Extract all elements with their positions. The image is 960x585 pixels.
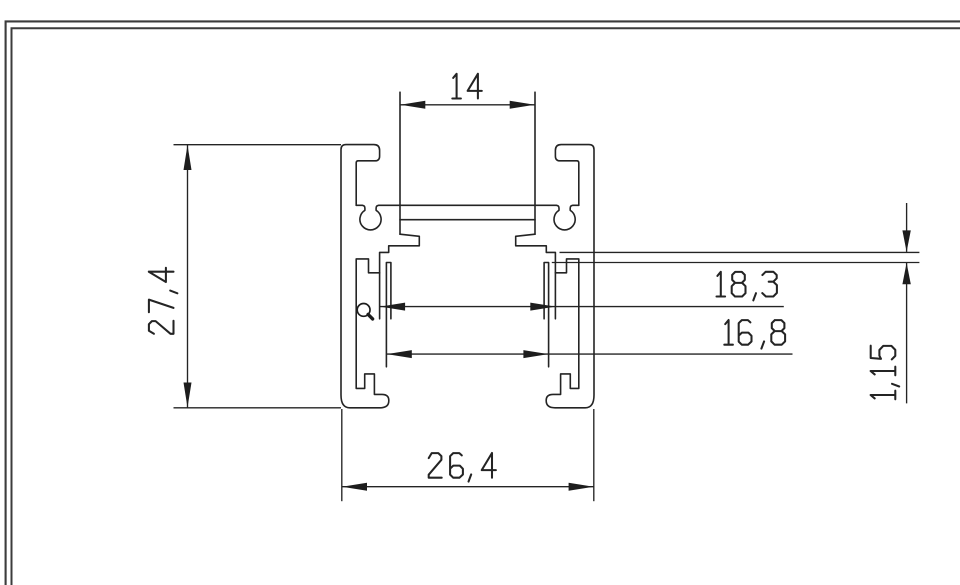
- arrow dim16,8 right: [523, 350, 548, 358]
- text 16,8: [724, 320, 785, 349]
- central channel floor: [400, 219, 535, 221]
- dim 27,4 line: [187, 145, 189, 408]
- arrow dim26,4 right: [569, 483, 594, 491]
- profile right wall + ear + foot + web steps (mirror): [546, 145, 594, 408]
- dim 1,15 line lower: [906, 263, 908, 404]
- central channel wall left (also ext line of dim 14): [399, 92, 401, 234]
- dim 1,15 line upper: [906, 203, 908, 252]
- shelf line segments at y=205.3: [356, 204, 579, 206]
- dim 14 line: [400, 104, 535, 106]
- lip thickness reference line A y=252.4: [560, 251, 920, 253]
- dim 18,3 line: [380, 306, 784, 308]
- arrow dim14 right: [510, 101, 535, 109]
- detail magnifier mark: [357, 304, 372, 319]
- arrow dim27,4 top: [184, 145, 192, 170]
- arrow dim1,15 lower: [902, 263, 910, 285]
- dim 27,4 extension top: [174, 144, 342, 146]
- central block notch right: [516, 234, 556, 319]
- arrow dim18,3 right: [530, 303, 555, 311]
- arrow dim16,8 left: [387, 350, 412, 358]
- keyhole screw slot right: [554, 205, 575, 230]
- keyhole screw slot left: [360, 205, 381, 230]
- fin left: [386, 263, 391, 367]
- text 18,3: [717, 272, 777, 301]
- text 27,4 (rotated): [149, 268, 178, 334]
- arrow dim27,4 bottom: [184, 383, 192, 408]
- lip thickness reference line B y=262.5: [552, 262, 920, 264]
- text 14: [452, 74, 482, 99]
- dim 27,4 extension bottom: [174, 407, 342, 409]
- dim 26,4 line: [342, 486, 594, 488]
- central channel wall right (also ext line of dim 14): [534, 92, 536, 234]
- dim 26,4 extension left: [341, 409, 343, 501]
- dim 16,8 line: [387, 353, 793, 355]
- profile left wall + ear + foot + web steps: [341, 145, 389, 408]
- arrow dim14 left: [400, 101, 425, 109]
- fin right: [544, 263, 549, 367]
- arrow dim1,15 upper: [902, 230, 910, 252]
- arrow dim18,3 left: [380, 303, 405, 311]
- text 26,4: [429, 453, 496, 482]
- arrow dim26,4 left: [342, 483, 367, 491]
- central block notch left: [380, 234, 420, 319]
- dim 26,4 extension right: [593, 409, 595, 501]
- text 1,15 (rotated): [871, 346, 900, 400]
